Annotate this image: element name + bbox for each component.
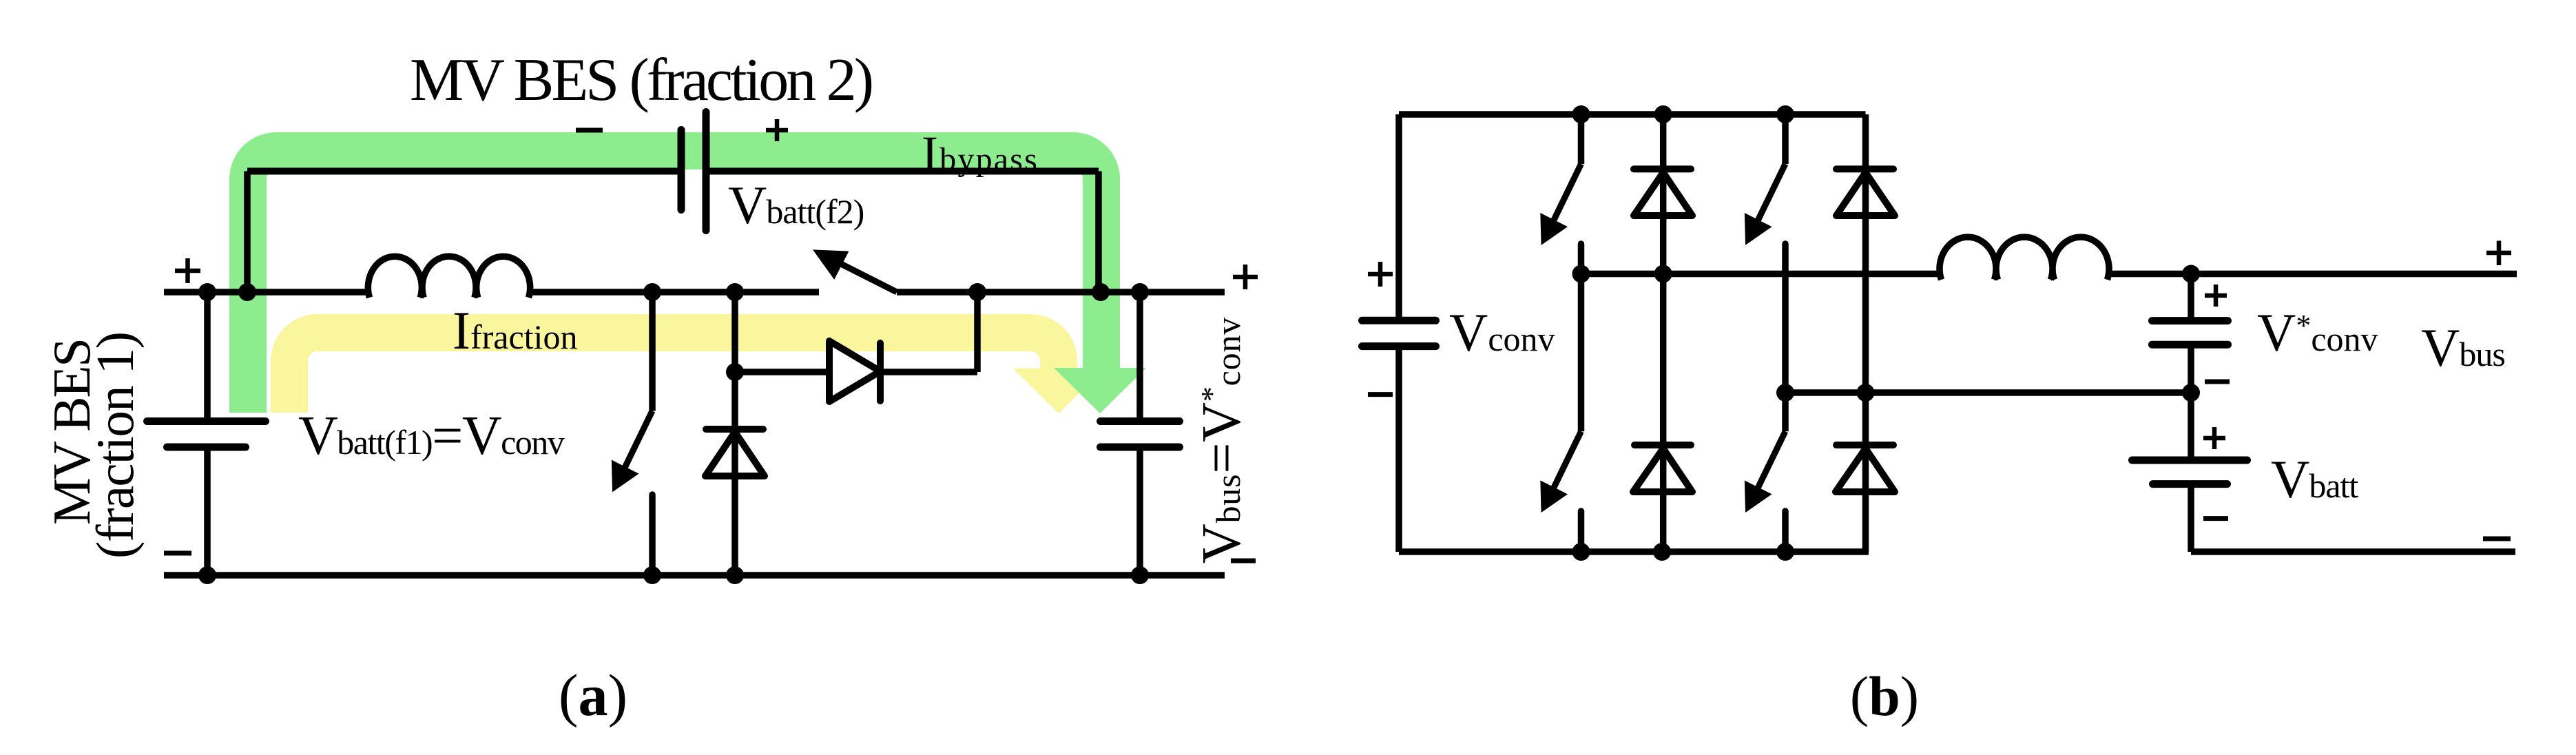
arrowhead of yellow I_fraction band bbox=[1013, 369, 1104, 414]
svg-text:MV BES (fraction 2): MV BES (fraction 2) bbox=[410, 47, 874, 114]
node: S4b / bottom rail bbox=[1776, 543, 1794, 561]
label: plus sign main rail left bbox=[175, 258, 200, 283]
diode D1b triangle bbox=[1634, 172, 1692, 216]
diode D1b cathode bar bbox=[1634, 165, 1691, 172]
node: S2b / top rail bbox=[1776, 105, 1794, 123]
wire: switch S2b bottom stub bbox=[1782, 244, 1789, 393]
node: S1b / top rail bbox=[1572, 105, 1590, 123]
capacitor Ca bottom plate bbox=[1101, 444, 1180, 451]
label: minus sign capacitor (b) bbox=[2205, 380, 2230, 384]
battery Vbatt positive plate bbox=[2132, 457, 2247, 464]
inductor Lb bbox=[1940, 237, 2109, 280]
highlight band I_bypass (green) bbox=[248, 151, 1101, 413]
node: S1b / mid rail bbox=[1572, 265, 1590, 283]
capacitor Ca top plate bbox=[1101, 417, 1180, 425]
node: bypass drop / main rail bbox=[1092, 283, 1110, 301]
arrowhead of green I_bypass band bbox=[1054, 368, 1146, 413]
wire: main positive rail middle segment bbox=[530, 289, 819, 296]
wire: battery Vbatt top lead bbox=[2188, 393, 2194, 460]
junction dots circuit (b) bbox=[1572, 105, 2201, 561]
diode D2b cathode bar bbox=[1836, 165, 1893, 172]
wire: main positive rail left segment bbox=[164, 289, 368, 296]
diode D3b triangle bbox=[1633, 448, 1692, 492]
switch S1b blade bbox=[1554, 164, 1581, 220]
switch S4b blade bbox=[1758, 431, 1785, 488]
switch S3b arrowhead bbox=[1541, 482, 1566, 511]
label: minus sign bus right (b) bbox=[2483, 537, 2511, 541]
node: bypass riser / main rail bbox=[238, 283, 256, 301]
node: switch S1a / bottom rail bbox=[643, 566, 661, 584]
highlight band I_fraction (yellow) bbox=[289, 333, 1059, 413]
label: plus sign Vconv bbox=[1368, 262, 1393, 287]
wire: lower mid rail bbox=[1785, 389, 2191, 396]
node: S2b / lower mid rail bbox=[1776, 384, 1794, 402]
junction dots circuit (a) bbox=[198, 283, 1149, 584]
wire: diode D2a branch horizontal bbox=[735, 369, 977, 375]
switch S2b blade bbox=[1758, 164, 1785, 220]
node: diode D1a / bottom rail bbox=[726, 566, 744, 584]
node: D3b / bottom rail bbox=[1653, 543, 1671, 561]
wire: battery Vbatt bottom lead bbox=[2188, 484, 2194, 552]
switch S2a arrowhead bbox=[815, 251, 847, 278]
wire: left leg above capacitor bbox=[1395, 114, 1402, 320]
label: plus sign bus (b) bbox=[2486, 241, 2511, 266]
wire: top rail (b) bbox=[1399, 111, 1866, 118]
node: D1b / mid rail bbox=[1654, 265, 1672, 283]
diode D1a cathode bar bbox=[706, 426, 763, 433]
label: minus sign at battery f2 bbox=[576, 128, 603, 133]
label: plus sign bus right (a) bbox=[1233, 265, 1258, 289]
diode D2a cathode bar bbox=[877, 343, 884, 401]
wire: bypass branch drop to main rail bbox=[1095, 172, 1102, 293]
svg-text:(b): (b) bbox=[1850, 665, 1919, 727]
capacitor V*conv plates bbox=[2152, 317, 2228, 324]
wire: switch S3b bottom stub bbox=[1578, 511, 1585, 552]
node: S3b / bottom rail bbox=[1572, 543, 1590, 561]
wire: inductor to bus plus bbox=[2109, 271, 2517, 278]
wire: battery fraction1 bottom lead bbox=[204, 447, 211, 575]
capacitor Vconv plates bbox=[1362, 317, 1436, 324]
wire: bypass top rail right of battery bbox=[706, 168, 1099, 175]
wire: diode D1a vertical branch bbox=[731, 292, 738, 575]
switch S1a blade bbox=[625, 411, 652, 468]
wire: bottom rail (b) bbox=[1399, 548, 1869, 555]
wire: switch S1b top stub bbox=[1578, 114, 1585, 164]
wire: switch S4b upper lead bbox=[1782, 393, 1789, 431]
wire: output capacitor bottom lead bbox=[1136, 447, 1143, 575]
wire: switch S1a lower stub bbox=[649, 495, 656, 575]
wire: diode D3b vertical bbox=[1660, 274, 1667, 552]
wire: battery fraction1 top lead bbox=[204, 292, 211, 422]
wire: bypass top rail left of battery bbox=[247, 168, 681, 175]
label: plus sign battery (b) bbox=[2203, 427, 2225, 449]
diode D3b cathode bar bbox=[1634, 442, 1691, 448]
wire: output capacitor top lead bbox=[1136, 292, 1143, 422]
wire: switch S4b bottom stub bbox=[1782, 511, 1789, 552]
label: plus sign capacitor (b) bbox=[2205, 285, 2227, 307]
wire: bottom negative rail bbox=[164, 572, 1225, 579]
switch S2b arrowhead bbox=[1745, 215, 1769, 244]
switch S1a arrowhead bbox=[612, 462, 636, 490]
node: battery f1 / main rail bbox=[198, 283, 216, 301]
diode D2a (series diode) triangle bbox=[829, 341, 880, 402]
label: plus sign at battery f2 bbox=[766, 119, 788, 141]
node: capacitor Ca / bottom rail bbox=[1131, 566, 1149, 584]
node: capacitor Ca / main rail bbox=[1131, 283, 1149, 301]
svg-text:(fraction 1): (fraction 1) bbox=[85, 331, 145, 559]
node: diode branch / D1a vertical bbox=[726, 363, 744, 381]
wire: switch S2b top stub bbox=[1782, 114, 1789, 164]
diode D2b triangle bbox=[1836, 172, 1895, 216]
battery Vbatt(f2) negative plate bbox=[678, 130, 685, 210]
node: D1b / top rail bbox=[1654, 105, 1672, 123]
diode D4b cathode bar bbox=[1836, 442, 1893, 448]
wire: diode D2b vertical bbox=[1862, 114, 1869, 552]
label: minus sign bus right (a) bbox=[1231, 559, 1256, 563]
diode D4b triangle bbox=[1836, 448, 1895, 492]
battery Vbatt negative plate bbox=[2153, 480, 2227, 488]
switch S1b arrowhead bbox=[1541, 215, 1566, 244]
wire: bypass branch riser at node B bbox=[244, 172, 251, 293]
wire: bridge mid rail to inductor bbox=[1581, 271, 1940, 278]
wire: output capacitor to battery node bbox=[2188, 344, 2194, 393]
wire: bottom bus rail right bbox=[2191, 548, 2515, 555]
battery Vbatt(f1) positive plate bbox=[147, 417, 266, 425]
node: battery f1 / bottom rail bbox=[198, 566, 216, 584]
wire: switch S1b bottom stub bbox=[1578, 244, 1585, 274]
wire: diode D1b vertical bbox=[1660, 114, 1667, 274]
diode D1a (freewheel diode) triangle bbox=[705, 432, 765, 476]
battery Vbatt(f2) positive plate bbox=[703, 112, 710, 231]
switch S2a (bypass switch) blade bbox=[841, 264, 897, 292]
wire: output capacitor top lead (b) bbox=[2188, 274, 2194, 321]
wire: left leg below capacitor bbox=[1395, 347, 1402, 552]
label: minus sign bottom rail left bbox=[164, 551, 191, 556]
inductor La bbox=[368, 256, 530, 298]
wire: main positive rail right segment bbox=[897, 289, 1225, 296]
switch S3b blade bbox=[1554, 431, 1581, 488]
svg-text:(a): (a) bbox=[559, 662, 627, 728]
label: minus sign Vconv bbox=[1368, 392, 1393, 397]
battery Vbatt(f1) negative plate bbox=[167, 444, 246, 451]
node: capacitor-battery / lower mid rail bbox=[2182, 384, 2200, 402]
label: minus sign battery (b) bbox=[2203, 516, 2228, 521]
wire: diode D2a branch riser bbox=[974, 292, 981, 372]
node: D2b / lower mid rail bbox=[1857, 384, 1875, 402]
node: diode branch / main rail bbox=[968, 283, 986, 301]
wire: switch S3b upper lead bbox=[1578, 274, 1585, 432]
node: diode D1a / main rail bbox=[726, 283, 744, 301]
switch S4b arrowhead bbox=[1745, 482, 1769, 511]
node: capacitor / mid rail bbox=[2182, 265, 2200, 283]
wire: switch S1a upper lead bbox=[649, 292, 656, 411]
node: switch S1a / main rail bbox=[643, 283, 661, 301]
